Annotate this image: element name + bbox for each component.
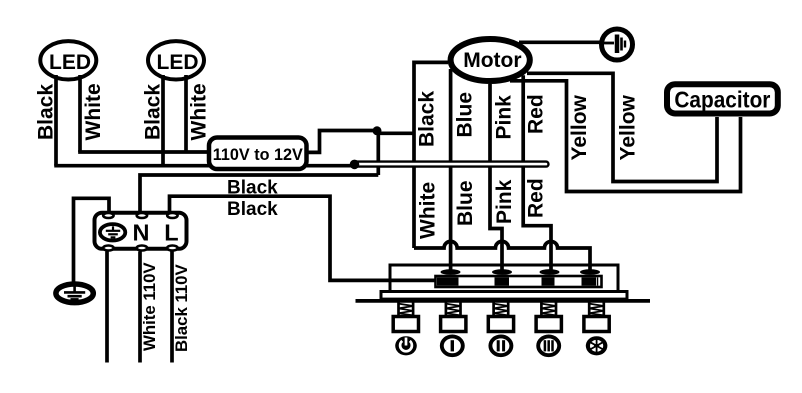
button 4 bbox=[536, 317, 561, 332]
wire ground down bbox=[105, 252, 109, 363]
spring 5 bbox=[589, 302, 604, 316]
spring 4 bbox=[541, 302, 556, 316]
svg-text:110V to 12V: 110V to 12V bbox=[213, 145, 304, 164]
spring 2 bbox=[446, 302, 461, 316]
motor bbox=[451, 39, 530, 81]
button 1 bbox=[393, 317, 418, 332]
svg-text:White 110V: White 110V bbox=[140, 262, 159, 351]
junction dot A bbox=[373, 126, 382, 135]
svg-text:LED: LED bbox=[49, 51, 91, 74]
wire N down White 110V bbox=[138, 252, 142, 363]
svg-text:Black: Black bbox=[416, 91, 439, 147]
wire LED2 white lead bbox=[184, 75, 188, 152]
switch base line bbox=[356, 299, 651, 303]
svg-text:Black: Black bbox=[35, 84, 58, 140]
slider pad 4 bbox=[582, 277, 597, 285]
slider pad 3 bbox=[542, 277, 555, 285]
svg-text:Capacitor: Capacitor bbox=[674, 87, 770, 113]
terminal oval top ground bbox=[103, 213, 113, 218]
wire junction A down to N line bbox=[376, 131, 380, 176]
icon speed III (button 4) bbox=[538, 336, 559, 355]
wire motor yellow lead 1 bbox=[510, 81, 741, 192]
wire white feed with hops to contact 4 bbox=[414, 241, 590, 270]
junction dot pill bbox=[350, 160, 360, 170]
svg-text:L: L bbox=[164, 220, 178, 246]
ground rod symbol bbox=[56, 284, 93, 303]
switch frame bbox=[390, 265, 618, 292]
terminal oval bottom L bbox=[167, 246, 177, 251]
wire converter output to junction A bbox=[307, 131, 378, 153]
converter 110V to 12V bbox=[209, 138, 307, 170]
wire connector pill bbox=[352, 162, 549, 167]
wire L line to switch feed bbox=[170, 196, 437, 280]
wire LED2 black lead bbox=[161, 75, 165, 166]
contact foot 3 bbox=[540, 269, 560, 275]
svg-text:Black: Black bbox=[227, 199, 278, 220]
icon power (button 1) bbox=[395, 336, 417, 355]
svg-text:LED: LED bbox=[157, 51, 199, 74]
svg-text:White: White bbox=[188, 83, 211, 140]
LED lamp 1 bbox=[40, 41, 96, 79]
svg-text:Red: Red bbox=[525, 178, 548, 218]
ground symbol in terminal block bbox=[100, 224, 125, 240]
wire L down Black 110V bbox=[170, 252, 174, 363]
terminal oval bottom ground bbox=[103, 246, 113, 251]
terminal oval bottom N bbox=[137, 246, 147, 251]
wire motor red lead bbox=[523, 75, 551, 270]
capacitor bbox=[667, 84, 778, 113]
icon fan (button 5) bbox=[586, 336, 608, 355]
button 2 bbox=[441, 317, 466, 332]
spring 3 bbox=[494, 302, 509, 316]
wire LED1 white lead bbox=[78, 75, 82, 152]
icon speed II (button 3) bbox=[490, 336, 511, 355]
wire motor pink lead bbox=[490, 84, 502, 271]
svg-text:Blue: Blue bbox=[454, 180, 477, 226]
LED lamp 2 bbox=[148, 41, 204, 79]
wire white bus to converter bbox=[78, 150, 209, 154]
svg-text:Pink: Pink bbox=[493, 179, 516, 224]
wire LED1 black lead bbox=[54, 75, 58, 166]
wire junction A to motor black lead bbox=[377, 131, 414, 135]
wire N line bbox=[140, 175, 378, 212]
wire motor blue lead bbox=[449, 69, 453, 271]
icon speed I (button 2) bbox=[442, 336, 463, 355]
wire black bus to connector bbox=[54, 164, 352, 168]
svg-text:Black 110V: Black 110V bbox=[172, 263, 191, 352]
contact foot 1 bbox=[441, 269, 461, 275]
svg-text:Red: Red bbox=[525, 94, 548, 134]
contact foot 2 bbox=[492, 269, 512, 275]
button 5 bbox=[584, 317, 609, 332]
slider bar bbox=[436, 276, 602, 287]
chassis ground symbol bbox=[602, 29, 633, 60]
svg-text:Yellow: Yellow bbox=[617, 94, 640, 160]
svg-text:N: N bbox=[133, 220, 150, 246]
switch base plate bbox=[381, 292, 627, 300]
contact foot 4 bbox=[580, 269, 600, 275]
svg-text:Pink: Pink bbox=[493, 95, 516, 140]
svg-text:White: White bbox=[82, 83, 105, 140]
wire motor yellow lead 2 bbox=[527, 73, 717, 181]
button 3 bbox=[488, 317, 513, 332]
slider pad 1 bbox=[437, 277, 459, 285]
svg-text:Yellow: Yellow bbox=[568, 94, 591, 160]
wire motor black lead bbox=[414, 62, 448, 248]
terminal oval top N bbox=[137, 213, 147, 218]
slider inner end line bbox=[597, 277, 599, 285]
svg-text:Blue: Blue bbox=[454, 92, 477, 138]
spring 1 bbox=[399, 302, 414, 316]
terminal oval top L bbox=[167, 213, 177, 218]
wire ground terminal to ground rod bbox=[74, 198, 110, 282]
terminal block bbox=[95, 213, 187, 249]
svg-text:White: White bbox=[417, 182, 440, 239]
svg-text:Motor: Motor bbox=[463, 49, 521, 72]
wire motor to chassis ground bbox=[519, 40, 602, 44]
svg-text:Black: Black bbox=[142, 84, 165, 140]
slider pad 2 bbox=[495, 277, 510, 285]
